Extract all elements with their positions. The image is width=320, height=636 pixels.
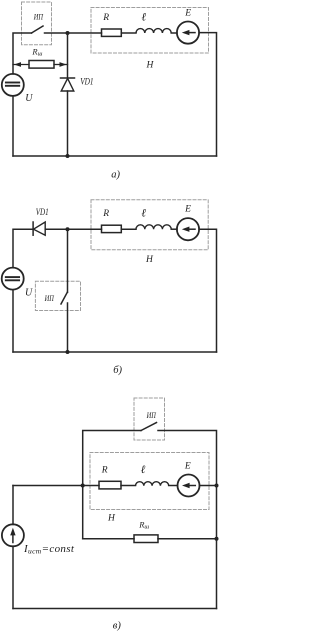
bottom wire (a) <box>13 155 217 157</box>
svg-text:ИП: ИП <box>146 411 157 420</box>
svg-text:ИП: ИП <box>44 294 55 303</box>
svg-text:Н: Н <box>146 61 155 71</box>
svg-text:ИП: ИП <box>33 12 44 21</box>
resistor Rsh (v) <box>134 535 158 543</box>
wire diode branch upper (a) <box>67 33 69 78</box>
wire switch to R (a) <box>45 32 102 34</box>
wire L to E (v) <box>169 485 178 487</box>
wire E to right (v) <box>200 485 217 487</box>
wire E to right, down (a) <box>199 33 216 156</box>
wire R to L (b) <box>121 228 136 230</box>
svg-text:ℓ: ℓ <box>141 464 146 476</box>
arrow right Rsh (a) <box>60 62 67 67</box>
node left junction (v) <box>81 484 85 488</box>
inductor L (b) <box>136 225 171 229</box>
switch branch upper wire (b) <box>67 229 69 292</box>
arrow left Rsh (a) <box>14 62 21 67</box>
resistor R (b) <box>102 225 122 232</box>
switch branch lower wire (b) <box>67 303 69 352</box>
svg-text:б): б) <box>113 365 122 376</box>
switch IP blade (v) <box>141 423 157 431</box>
dashed box H (v) <box>90 453 209 510</box>
wire L to E (b) <box>171 228 177 230</box>
node right junction lower (v) <box>215 537 219 541</box>
svg-text:Rш: Rш <box>138 519 149 530</box>
wire diode branch lower (a) <box>67 91 69 156</box>
wire E right down (b) <box>199 229 216 352</box>
svg-text:E: E <box>184 462 191 472</box>
EMF source E (a) <box>177 21 199 43</box>
svg-text:VD1: VD1 <box>36 208 49 218</box>
svg-text:U: U <box>25 93 33 104</box>
node top junction (a) <box>66 31 70 35</box>
svg-text:а): а) <box>111 170 120 181</box>
svg-text:Iист=const: Iист=const <box>23 543 75 556</box>
Rsh branch wire right (v) <box>158 538 217 540</box>
node right junction upper (v) <box>215 484 219 488</box>
EMF source E (b) <box>177 218 199 240</box>
diode VD1 (b) <box>32 222 34 235</box>
node bottom junction (b) <box>66 350 70 354</box>
wire top-left (b) <box>13 229 33 267</box>
svg-text:Н: Н <box>145 255 154 265</box>
wire diode to junction to R (b) <box>45 228 101 230</box>
EMF source E (v) <box>178 475 200 497</box>
dashed box H (a) <box>91 8 209 54</box>
svg-text:R: R <box>102 13 109 23</box>
svg-text:U: U <box>25 288 33 299</box>
wire R to L (a) <box>121 32 136 34</box>
svg-text:R: R <box>101 466 108 476</box>
inductor L (a) <box>136 29 171 33</box>
dashed box IP (b) <box>35 281 80 310</box>
wire top-left to switch (a) <box>13 33 32 74</box>
svg-text:E: E <box>184 205 191 215</box>
node bottom junction (a) <box>66 154 70 158</box>
node top junction (b) <box>66 227 70 231</box>
top wire right segment (v) <box>158 431 217 609</box>
svg-text:E: E <box>184 9 191 19</box>
svg-text:R: R <box>102 209 109 219</box>
source U (a) <box>2 74 24 96</box>
diode VD1 (a) <box>61 77 75 79</box>
current source branch upper wire (v) <box>12 486 14 525</box>
wire source to bottom (b) <box>12 290 14 352</box>
dashed box IP (a) <box>22 2 52 45</box>
resistor R (a) <box>102 29 122 36</box>
switch IP blade (b) <box>61 292 67 304</box>
H branch wire left (v) <box>13 485 99 487</box>
resistor R (v) <box>99 481 121 489</box>
current source I (v) <box>2 524 24 546</box>
Rsh branch wire left (v) <box>83 538 134 540</box>
svg-text:ℓ: ℓ <box>141 12 146 24</box>
svg-text:Н: Н <box>107 513 116 523</box>
svg-text:Rш: Rш <box>31 46 42 57</box>
svg-text:в): в) <box>113 621 122 632</box>
shunt branch Rsh (a) <box>13 64 29 66</box>
top wire left segment (v) <box>83 431 141 539</box>
dashed box H (b) <box>91 200 208 250</box>
bottom wire (v) <box>13 608 217 610</box>
svg-text:VD1: VD1 <box>80 77 93 87</box>
wire L to E (a) <box>171 32 177 34</box>
bottom wire (b) <box>13 351 217 353</box>
wire R to L (v) <box>121 485 136 487</box>
switch IP blade (a) <box>32 26 44 33</box>
inductor L (v) <box>136 482 169 486</box>
dashed box IP (v) <box>134 398 165 440</box>
resistor Rsh (a) <box>29 61 54 69</box>
source U (b) <box>2 268 24 290</box>
svg-text:ℓ: ℓ <box>141 207 146 219</box>
current source branch lower wire (v) <box>12 546 14 608</box>
